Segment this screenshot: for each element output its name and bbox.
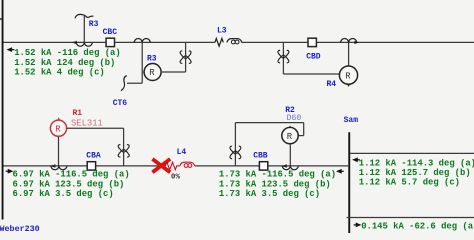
svg-text:6.97 kA -116.5 deg (a): 6.97 kA -116.5 deg (a) — [13, 170, 130, 180]
svg-text:CBC: CBC — [103, 28, 118, 37]
svg-text:R: R — [149, 68, 155, 78]
svg-text:1.73 kA 123.5 deg (b): 1.73 kA 123.5 deg (b) — [219, 179, 331, 189]
disconnect X4 — [230, 146, 241, 158]
wire: loop into relay R2 — [298, 135, 304, 137]
disconnect X2 — [278, 50, 289, 62]
wire: right branch 2 from bus Sam — [347, 217, 474, 219]
svg-text:L4: L4 — [177, 148, 187, 157]
svg-text:D60: D60 — [287, 114, 302, 123]
wire: bottom line from L4 to bus Sam — [195, 165, 348, 167]
svg-text:1.52 kA 4 deg (c): 1.52 kA 4 deg (c) — [14, 68, 105, 78]
svg-text:6.97 kA 3.5 deg (c): 6.97 kA 3.5 deg (c) — [13, 189, 114, 199]
relay R4 bottom tick — [347, 85, 350, 87]
wire: vertical with disconnect X4 up from bottom line — [234, 123, 236, 166]
relay R1 circle (red) — [50, 120, 66, 136]
squiggle CT6 lead end — [121, 76, 127, 91]
CT R4 on top line (cups above, lead down to relay R4) — [341, 39, 357, 43]
CT polarity arrow left — [282, 164, 287, 168]
relay R4 circle — [339, 66, 357, 84]
squiggle lead end — [75, 14, 94, 18]
line L4 coil loops (red) — [184, 164, 188, 168]
svg-text:CBD: CBD — [306, 53, 321, 62]
wire: vertical with disconnect to top line — [185, 42, 187, 72]
wire: bottom line from bus Weber230 to fault — [4, 165, 166, 167]
bus Weber230 (left vertical bus) — [2, 0, 4, 220]
svg-text:R: R — [287, 132, 293, 142]
svg-text:R1: R1 — [73, 109, 83, 118]
svg-text:1.52 kA -116 deg (a): 1.52 kA -116 deg (a) — [14, 48, 121, 58]
svg-text:R: R — [55, 124, 61, 134]
svg-text:0%: 0% — [171, 173, 181, 181]
wire: lead down from CT — [141, 42, 143, 83]
svg-text:SEL311: SEL311 — [71, 118, 103, 128]
wire: horizontal lead to relay R4 — [283, 73, 339, 75]
wire: lead from relay R2 down to CT — [289, 144, 291, 166]
svg-text:1.73 kA -116.5 deg (a): 1.73 kA -116.5 deg (a) — [219, 170, 336, 180]
svg-text:1.12 kA 5.7 deg (c): 1.12 kA 5.7 deg (c) — [359, 178, 460, 188]
svg-text:1.73 kA 3.5 deg (c): 1.73 kA 3.5 deg (c) — [219, 189, 320, 199]
svg-text:L3: L3 — [217, 27, 227, 36]
wire: CT lead up — [83, 16, 85, 42]
svg-text:R3: R3 — [89, 20, 99, 29]
CT R3a on top line (cups below, lead up with squiggle) — [76, 42, 92, 46]
wire: right branch 1 from bus Sam — [350, 152, 474, 154]
svg-text:CBB: CBB — [253, 151, 268, 160]
breaker CBB — [259, 162, 267, 170]
svg-text:R: R — [345, 71, 351, 81]
wire: top line after L3 to right edge — [242, 41, 474, 43]
wire: loop right vertical — [303, 123, 305, 136]
wire: vertical with disconnect X2 down to R4 lead — [282, 42, 284, 74]
current readout arrow (middle trailing, points left) — [341, 170, 344, 172]
wire: lead up from CT to relay R1 — [58, 136, 60, 166]
line L4 coil arch (red) — [180, 162, 195, 166]
relay R2 top tick — [289, 126, 292, 128]
wire: loop top horizontal — [235, 122, 303, 124]
CT polarity arrow left — [50, 164, 55, 168]
breaker CBC — [106, 38, 114, 46]
svg-text:Sam: Sam — [344, 116, 359, 125]
wire: lead down from CT to relay R4 — [348, 42, 350, 66]
relay R2 circle — [282, 127, 298, 143]
svg-text:R4: R4 — [327, 80, 337, 89]
line L3 coil loops — [231, 40, 235, 44]
svg-text:1.52 kA 124 deg (b): 1.52 kA 124 deg (b) — [14, 58, 115, 68]
svg-text:CBA: CBA — [86, 151, 101, 160]
bus tick left — [0, 18, 2, 19]
relay R1 top tick — [57, 117, 60, 120]
disconnect X3 — [118, 145, 129, 157]
wire: vertical with disconnect X3 down to bottom line — [123, 128, 125, 166]
line L3 coil arch — [227, 39, 242, 43]
breaker CBD — [308, 38, 316, 46]
current readout arrow (right, points left) — [357, 159, 360, 161]
CT polarity arrow — [72, 41, 77, 45]
wire: relay R3 left stub — [142, 71, 144, 73]
current readout arrow (top-left, points left) — [12, 49, 15, 51]
CT R1 on bottom line (cups below, lead up to relay R1) — [51, 166, 67, 170]
CT polarity arrow right — [354, 41, 359, 44]
svg-text:1.12 kA 125.7 deg (b): 1.12 kA 125.7 deg (b) — [359, 168, 471, 178]
wire: horizontal to CT6 squiggle — [127, 82, 142, 84]
svg-text:0.145 kA -62.6 deg (a): 0.145 kA -62.6 deg (a) — [361, 221, 474, 231]
current readout arrow (bottom-right, points right) — [354, 224, 357, 226]
relay R3 circle — [144, 64, 161, 81]
CT R2 on bottom line (cups below) — [282, 166, 298, 170]
svg-text:R3: R3 — [147, 55, 157, 64]
line L4 zigzag (red) — [165, 162, 180, 170]
current readout arrow (bottom-left, points right) — [6, 170, 9, 172]
breaker CBA — [87, 162, 95, 170]
fault X mark (red) — [152, 159, 170, 172]
bus Sam (right vertical bus) — [348, 132, 350, 233]
wire: top line from bus Weber230 — [4, 41, 215, 43]
wire: relay R3 right stub to disconnect branch — [161, 71, 186, 73]
disconnect X1 — [180, 51, 191, 63]
svg-text:Weber230: Weber230 — [0, 224, 40, 233]
svg-text:CT6: CT6 — [113, 99, 128, 108]
CT R3 on top line (cups above, lead down to relay R3) — [134, 39, 150, 43]
svg-text:6.97 kA 123.5 deg (b): 6.97 kA 123.5 deg (b) — [13, 179, 125, 189]
svg-text:1.12 kA -114.3 deg (a): 1.12 kA -114.3 deg (a) — [359, 158, 474, 168]
line L3 zigzag — [215, 39, 223, 47]
wire: relay R1 right lead — [67, 127, 124, 129]
